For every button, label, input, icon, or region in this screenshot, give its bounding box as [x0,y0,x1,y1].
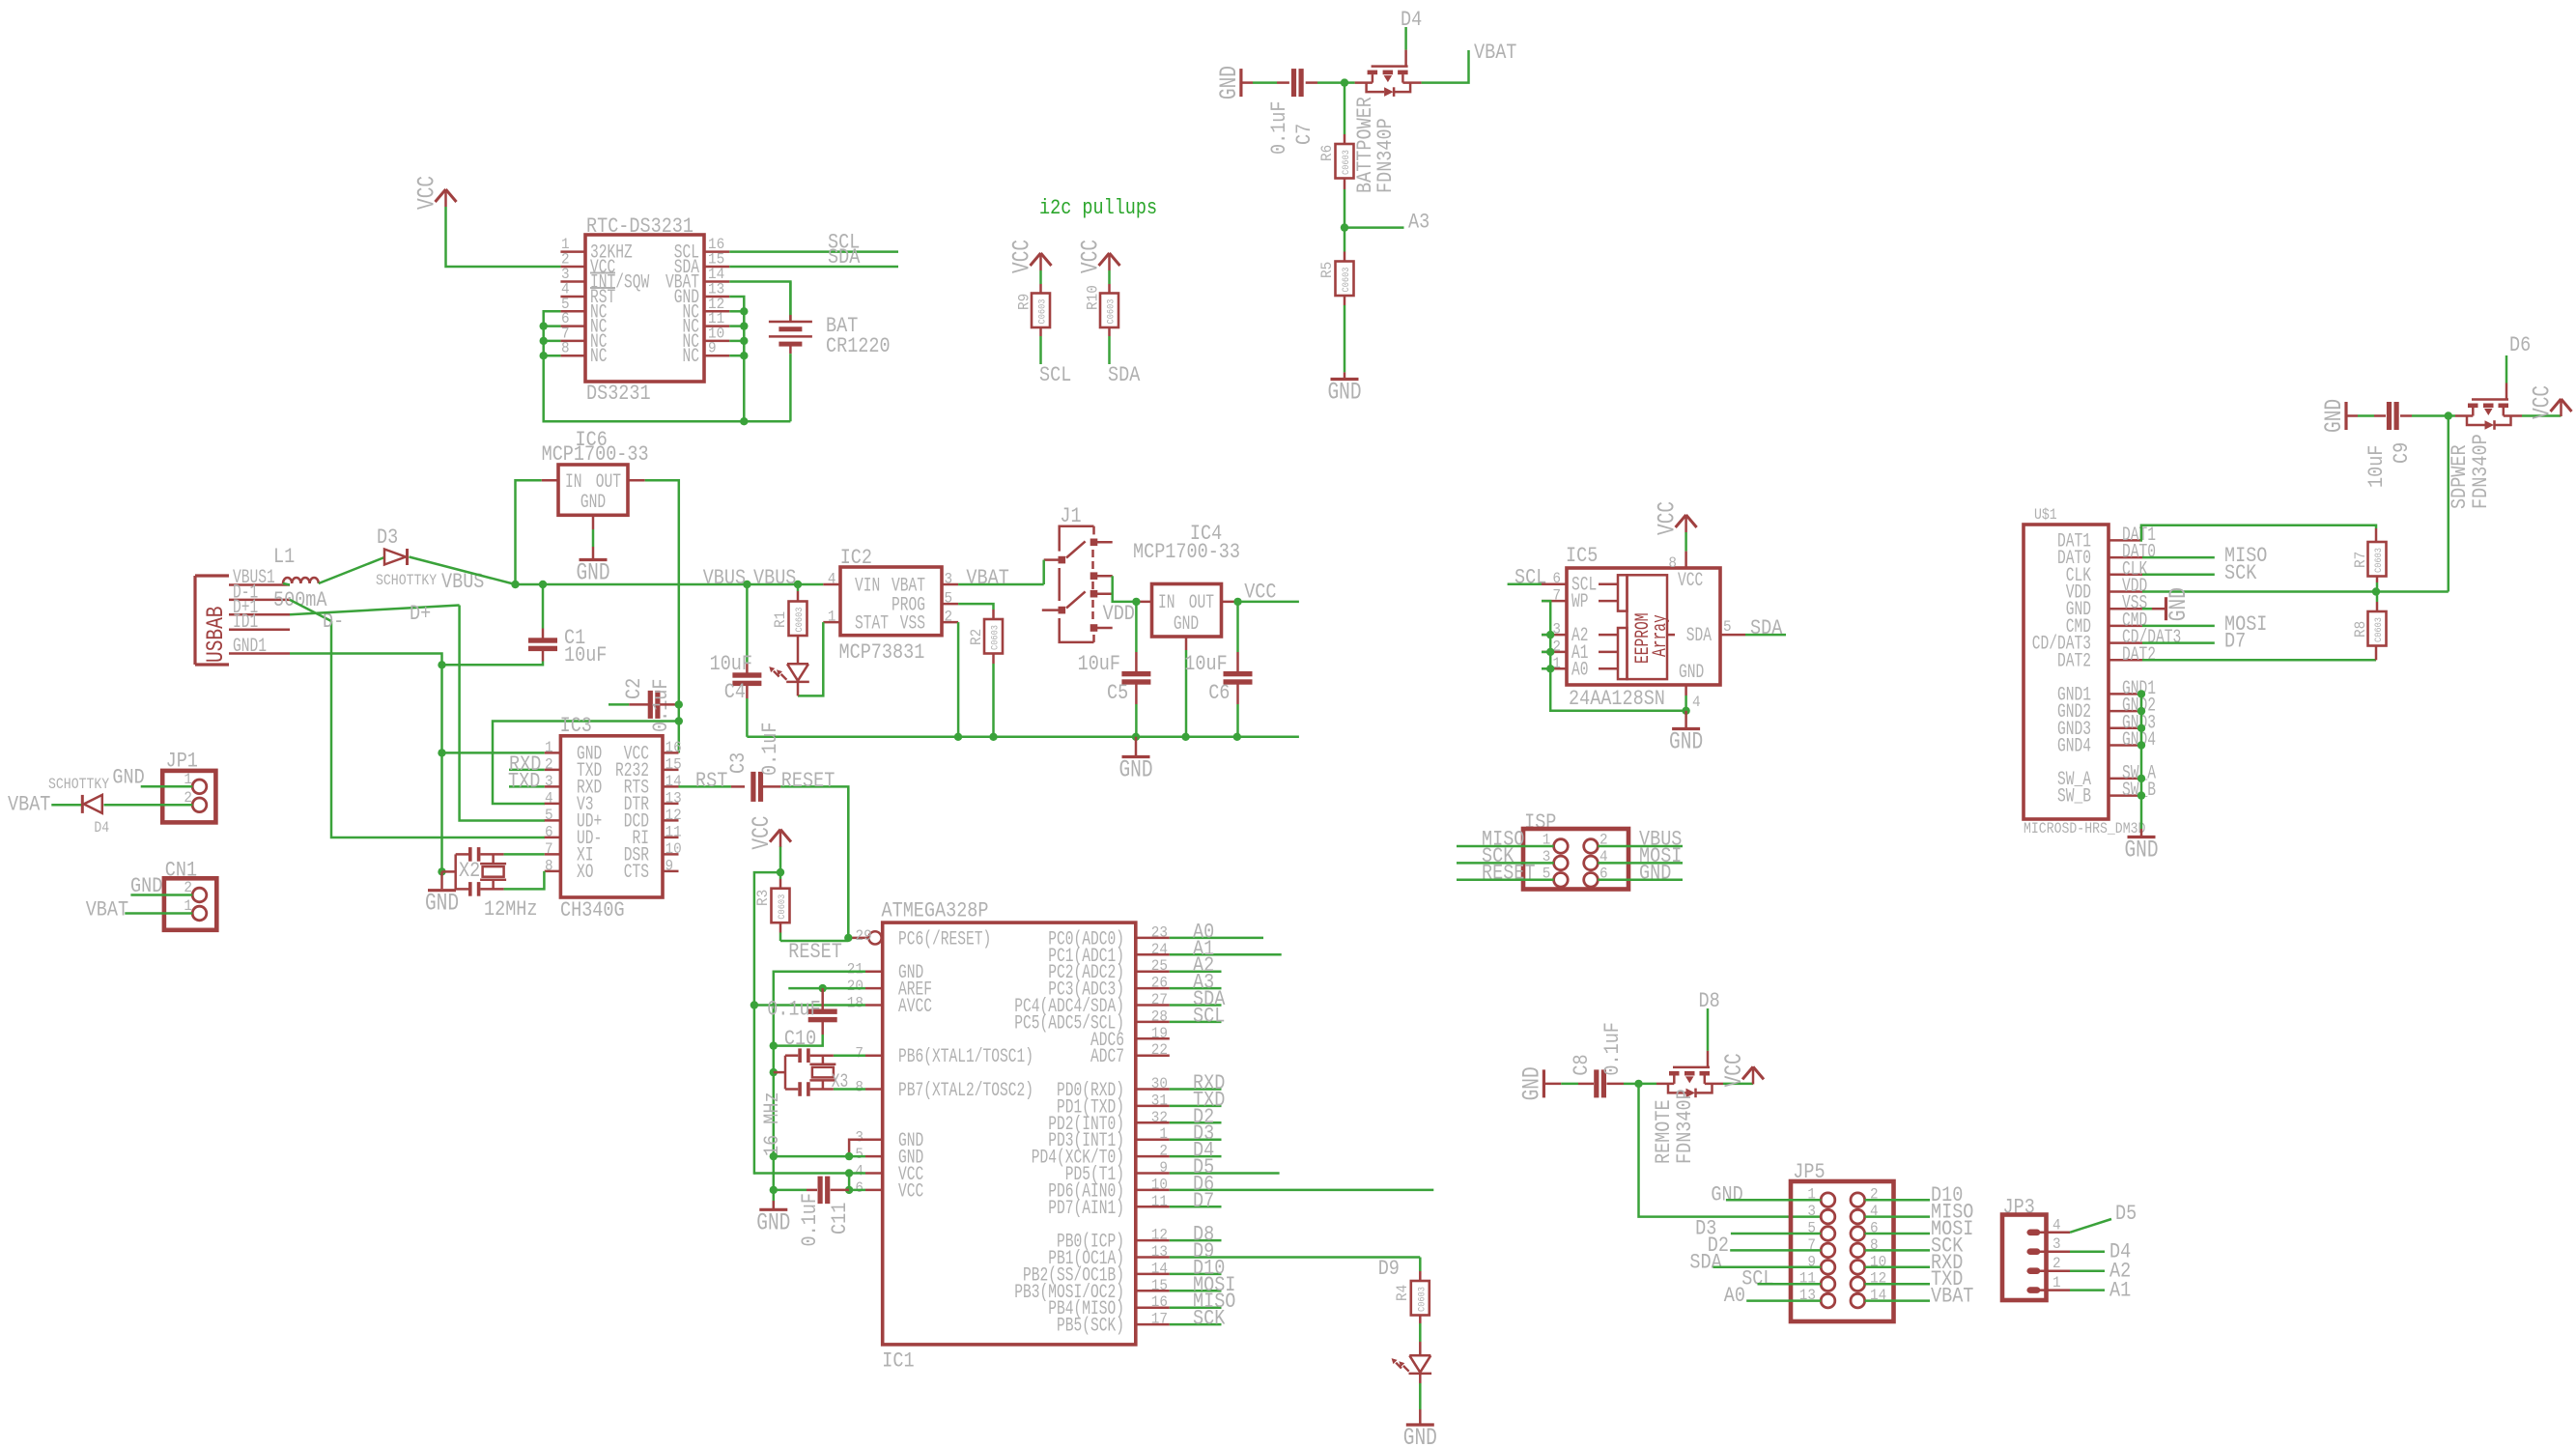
svg-text:SW_B: SW_B [2057,786,2091,809]
svg-text:L1: L1 [273,545,295,569]
svg-text:GND: GND [1679,662,1704,684]
svg-text:24: 24 [1151,941,1168,958]
svg-text:21: 21 [847,961,863,979]
svg-text:19: 19 [1151,1025,1168,1042]
svg-text:MCP1700-33: MCP1700-33 [1133,540,1240,564]
svg-text:10uF: 10uF [1078,652,1120,676]
svg-text:29: 29 [856,927,872,945]
svg-text:D6: D6 [2509,333,2531,357]
svg-text:D+: D+ [410,602,431,626]
svg-text:D9: D9 [1378,1257,1400,1281]
svg-text:GND1: GND1 [233,636,267,658]
svg-text:C0603: C0603 [2374,617,2385,642]
svg-text:ID1: ID1 [233,611,258,634]
svg-text:C0603: C0603 [778,894,788,920]
svg-text:GND: GND [1517,1066,1545,1100]
svg-text:4: 4 [828,571,836,588]
svg-text:4: 4 [1692,694,1701,711]
svg-text:1: 1 [545,739,553,756]
svg-text:12: 12 [1151,1227,1168,1244]
svg-text:6: 6 [1552,570,1561,587]
svg-text:VCC: VCC [1008,240,1036,273]
svg-text:ADC7: ADC7 [1090,1046,1124,1068]
svg-text:C9: C9 [2390,442,2414,464]
svg-text:C0603: C0603 [1107,299,1118,325]
svg-text:C6: C6 [1208,681,1230,705]
svg-text:C0603: C0603 [795,608,806,633]
svg-text:CR1220: CR1220 [826,334,891,358]
svg-text:1: 1 [2052,1274,2061,1291]
svg-text:10uF: 10uF [1184,652,1227,676]
svg-text:18: 18 [847,995,863,1012]
svg-text:SCK: SCK [2224,561,2257,585]
svg-text:GND: GND [425,890,459,918]
svg-text:R6: R6 [1318,145,1336,161]
svg-text:IC2: IC2 [840,546,872,570]
svg-text:C5: C5 [1107,681,1128,705]
svg-text:OUT: OUT [596,471,621,494]
svg-text:500mA: 500mA [273,588,327,612]
svg-text:10uF: 10uF [2364,445,2389,488]
svg-text:U$1: U$1 [2034,506,2057,524]
svg-text:GND: GND [1215,66,1243,99]
svg-text:VCC: VCC [1244,581,1276,605]
svg-text:RESET: RESET [1482,861,1536,885]
svg-text:2: 2 [2052,1255,2061,1272]
svg-text:TXD: TXD [508,769,540,793]
svg-text:GND: GND [1403,1424,1437,1447]
svg-text:C7: C7 [1292,124,1316,145]
svg-text:FDN340P: FDN340P [2469,434,2493,509]
svg-text:VCC: VCC [898,1180,923,1203]
svg-text:VCC: VCC [1077,240,1105,273]
svg-text:D7: D7 [2224,630,2246,654]
svg-text:GND: GND [130,874,162,898]
svg-text:OUT: OUT [1189,592,1214,614]
svg-text:DAT2: DAT2 [2057,650,2091,672]
svg-text:6: 6 [545,823,553,840]
svg-text:SDA: SDA [1108,363,1141,387]
svg-text:VBUS: VBUS [753,566,796,590]
svg-text:14: 14 [1151,1260,1168,1277]
svg-text:7: 7 [545,840,553,858]
svg-text:SCL: SCL [1193,1004,1225,1028]
svg-text:R8: R8 [2352,621,2369,638]
svg-text:24AA128SN: 24AA128SN [1569,687,1665,711]
svg-text:GND: GND [1639,861,1671,885]
svg-text:A0: A0 [1724,1284,1745,1308]
svg-text:25: 25 [1151,957,1168,975]
svg-text:VSS: VSS [900,613,925,636]
svg-text:4: 4 [855,1163,863,1180]
svg-text:SCHOTTKY: SCHOTTKY [376,572,438,589]
svg-text:X2: X2 [459,859,480,883]
svg-text:C10: C10 [784,1027,816,1051]
svg-text:1: 1 [1543,832,1551,849]
svg-text:8: 8 [545,857,553,874]
svg-text:6: 6 [1599,865,1608,882]
svg-text:R7: R7 [2352,552,2369,568]
svg-text:XO: XO [577,862,594,884]
svg-text:2: 2 [1159,1143,1168,1160]
svg-text:VBAT: VBAT [8,792,50,816]
svg-text:13: 13 [665,789,682,807]
svg-text:A0: A0 [1571,659,1589,681]
svg-text:4: 4 [2052,1216,2061,1234]
svg-text:1: 1 [828,609,836,626]
svg-text:32: 32 [1151,1109,1168,1126]
svg-text:IN: IN [1158,592,1175,614]
svg-text:D3: D3 [377,525,398,550]
svg-text:12: 12 [665,807,682,824]
svg-text:IC5: IC5 [1566,544,1598,568]
svg-text:GND: GND [576,559,609,587]
svg-text:4: 4 [1599,848,1608,865]
svg-text:VBAT: VBAT [966,566,1008,590]
svg-text:MCP73831: MCP73831 [839,640,925,665]
svg-text:R3: R3 [754,890,772,906]
svg-text:C0603: C0603 [991,625,1002,650]
svg-text:SCL: SCL [1039,363,1071,387]
svg-text:10uF: 10uF [710,652,752,676]
svg-text:C0603: C0603 [2374,548,2385,573]
svg-text:RESET: RESET [781,769,835,793]
svg-text:7: 7 [1552,587,1561,605]
svg-text:VCC: VCC [1720,1053,1748,1087]
svg-text:3: 3 [945,571,953,588]
svg-text:6: 6 [855,1179,863,1197]
svg-text:5: 5 [855,1146,863,1163]
svg-text:C0603: C0603 [1417,1287,1428,1312]
svg-text:9: 9 [1159,1159,1168,1177]
svg-text:D7: D7 [1193,1189,1214,1213]
svg-text:3: 3 [1807,1203,1816,1220]
svg-text:GND: GND [1174,613,1199,636]
svg-text:USBAB: USBAB [202,607,230,664]
svg-text:SCL: SCL [1514,566,1546,590]
svg-text:8: 8 [561,340,570,357]
svg-text:5: 5 [945,590,953,608]
svg-text:2: 2 [945,609,953,626]
svg-text:R2: R2 [968,629,985,645]
svg-text:SDA: SDA [1689,1250,1722,1274]
svg-text:MCP1700-33: MCP1700-33 [542,442,649,467]
svg-text:GND: GND [2165,587,2193,621]
svg-text:0.1uF: 0.1uF [1600,1022,1625,1076]
svg-text:VIN: VIN [855,576,880,598]
svg-text:GND: GND [1327,379,1361,407]
svg-text:GND: GND [1711,1183,1742,1207]
svg-text:D5: D5 [2115,1202,2137,1226]
svg-text:ATMEGA328P: ATMEGA328P [882,899,989,923]
svg-text:VDD: VDD [1103,602,1135,626]
svg-text:0.1uF: 0.1uF [758,723,782,777]
svg-text:A3: A3 [1408,211,1430,235]
svg-text:GND: GND [756,1208,790,1236]
svg-text:GND: GND [1669,728,1703,756]
svg-text:10uF: 10uF [564,643,607,667]
svg-text:STAT: STAT [855,613,889,636]
svg-text:CH340G: CH340G [560,898,625,922]
svg-text:C0603: C0603 [1342,268,1352,293]
svg-text:R10: R10 [1085,285,1102,310]
svg-text:C2: C2 [622,678,646,699]
svg-text:GND: GND [2320,399,2348,433]
svg-text:R5: R5 [1318,262,1336,278]
svg-text:VCC: VCC [1678,570,1703,592]
svg-text:GND: GND [1118,756,1152,784]
svg-text:VCC: VCC [413,176,441,210]
svg-text:GND: GND [2124,837,2158,865]
svg-text:DAT2: DAT2 [2122,644,2156,667]
svg-text:PC6(/RESET): PC6(/RESET) [898,928,991,950]
svg-text:20: 20 [847,978,863,995]
svg-text:10: 10 [1151,1176,1168,1193]
svg-text:5: 5 [1723,618,1732,636]
svg-text:R4: R4 [1394,1285,1411,1301]
svg-text:2: 2 [1599,832,1608,849]
svg-text:22: 22 [1151,1041,1168,1059]
svg-text:27: 27 [1151,991,1168,1008]
svg-text:FDN340P: FDN340P [1373,118,1398,193]
svg-text:C11: C11 [828,1203,852,1234]
svg-text:3: 3 [855,1129,863,1147]
svg-text:IC1: IC1 [882,1349,914,1374]
svg-text:10: 10 [665,840,682,858]
svg-text:16: 16 [1151,1293,1168,1311]
svg-text:VBUS: VBUS [703,566,746,590]
svg-text:13: 13 [1151,1243,1168,1261]
svg-text:SDA: SDA [828,245,861,270]
svg-text:A1: A1 [2109,1279,2131,1303]
svg-text:GND: GND [580,492,606,514]
svg-text:AVCC: AVCC [898,996,932,1018]
svg-text:PB5(SCK): PB5(SCK) [1057,1316,1124,1338]
svg-text:C0603: C0603 [1038,299,1049,325]
svg-text:SCHOTTKY: SCHOTTKY [48,776,110,793]
svg-text:SDA: SDA [1686,625,1712,647]
svg-text:5: 5 [545,807,553,824]
svg-text:MICROSD-HRS_DM3D: MICROSD-HRS_DM3D [2024,820,2145,837]
svg-text:C8: C8 [1570,1054,1594,1075]
svg-text:IC3: IC3 [560,714,592,738]
svg-text:CTS: CTS [624,862,649,884]
svg-text:PB6(XTAL1/TOSC1): PB6(XTAL1/TOSC1) [898,1046,1033,1068]
svg-text:GND4: GND4 [2057,736,2091,758]
svg-text:J1: J1 [1060,504,1081,528]
svg-text:NC: NC [683,346,700,368]
svg-text:C0603: C0603 [1342,150,1352,175]
svg-text:31: 31 [1151,1092,1168,1109]
svg-text:IN: IN [565,471,582,494]
svg-text:RTC-DS3231: RTC-DS3231 [586,214,694,239]
svg-text:SDA: SDA [1750,616,1783,640]
svg-text:PD7(AIN1): PD7(AIN1) [1048,1198,1124,1220]
svg-text:12MHz: 12MHz [484,897,538,922]
svg-text:5: 5 [1543,865,1551,882]
svg-text:16: 16 [665,739,682,756]
svg-text:8: 8 [855,1079,863,1096]
svg-text:9: 9 [708,340,717,357]
svg-text:4: 4 [545,789,553,807]
svg-text:GND: GND [112,766,144,790]
svg-text:RESET: RESET [788,940,842,964]
svg-text:SCL: SCL [1741,1267,1773,1291]
svg-text:9: 9 [665,857,674,874]
svg-text:FDN340P: FDN340P [1673,1089,1697,1164]
svg-text:0.1uF: 0.1uF [767,997,821,1021]
svg-text:VBAT: VBAT [86,897,128,922]
svg-text:3: 3 [545,773,553,790]
svg-text:i2c pullups: i2c pullups [1039,196,1157,220]
svg-text:11: 11 [1151,1193,1168,1210]
svg-text:PB7(XTAL2/TOSC2): PB7(XTAL2/TOSC2) [898,1080,1033,1102]
svg-text:3: 3 [1543,848,1551,865]
svg-text:D4: D4 [94,819,109,837]
svg-text:30: 30 [1151,1075,1168,1092]
svg-text:23: 23 [1151,923,1168,941]
svg-text:WP: WP [1571,591,1589,613]
svg-text:0.1uF: 0.1uF [1267,101,1291,156]
svg-text:15: 15 [1151,1277,1168,1294]
svg-text:D4: D4 [1401,8,1422,32]
svg-text:8: 8 [1668,554,1677,572]
svg-text:C3: C3 [726,752,750,774]
svg-text:26: 26 [1151,975,1168,992]
svg-text:2: 2 [545,755,553,773]
svg-text:NC: NC [590,346,608,368]
svg-text:SCK: SCK [1193,1307,1226,1331]
svg-text:28: 28 [1151,1007,1168,1025]
svg-text:11: 11 [665,823,682,840]
svg-text:7: 7 [855,1045,863,1063]
svg-text:VCC: VCC [1654,501,1682,535]
svg-text:15: 15 [665,755,682,773]
svg-text:3: 3 [2052,1235,2061,1253]
svg-text:VBAT: VBAT [1931,1285,1973,1309]
svg-text:16 MHz: 16 MHz [760,1092,784,1156]
svg-text:C4: C4 [724,680,746,704]
svg-text:VBAT: VBAT [1474,41,1516,65]
svg-text:1: 1 [1159,1125,1168,1143]
svg-text:R9: R9 [1016,294,1033,310]
svg-text:D8: D8 [1699,989,1720,1013]
svg-text:RST: RST [695,769,727,793]
svg-text:DS3231: DS3231 [586,382,651,406]
svg-text:R1: R1 [772,611,789,628]
svg-text:VCC: VCC [2529,385,2557,419]
svg-text:VCC: VCC [748,816,776,850]
svg-text:17: 17 [1151,1311,1168,1328]
svg-text:0.1uF: 0.1uF [798,1193,822,1247]
